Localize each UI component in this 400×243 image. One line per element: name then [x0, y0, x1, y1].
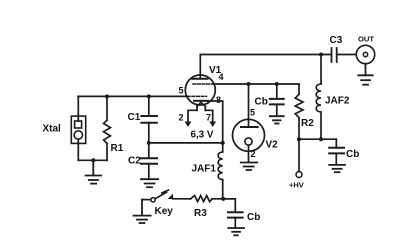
resistor R1 [104, 96, 124, 160]
ground at key [134, 200, 151, 223]
svg-text:8: 8 [216, 95, 221, 105]
ground under Cb screen [270, 116, 284, 123]
resistor R3 [191, 196, 224, 220]
wire V2 grid drop [248, 84, 250, 127]
node R2 bottom [297, 137, 301, 141]
op V1 triode envelope [185, 75, 215, 105]
wire crystal bottom [77, 139, 79, 160]
wire HV rail [299, 138, 336, 140]
svg-text:6,3 V: 6,3 V [191, 129, 214, 140]
svg-text:C1: C1 [128, 112, 141, 123]
wire C3 to OUT [337, 54, 357, 56]
node C1 C2 junction [147, 141, 151, 145]
resistor R2 [295, 84, 314, 139]
svg-text:JAF2: JAF2 [325, 96, 350, 107]
ground under C2 [141, 179, 158, 187]
svg-text:JAF1: JAF1 [192, 163, 217, 174]
switch Key [142, 190, 173, 217]
V1 heater filament [185, 102, 217, 127]
connector OUT [356, 34, 374, 63]
svg-text:+HV: +HV [289, 181, 304, 190]
wire top rail plate to C3 [200, 55, 331, 79]
ground under V2 [241, 163, 257, 171]
V1 cathode bar [194, 100, 208, 102]
capacitor C1 [128, 96, 157, 142]
svg-text:7: 7 [206, 112, 211, 122]
V1 plate bar [192, 78, 207, 80]
ground under Cb output [329, 165, 345, 172]
svg-text:2: 2 [251, 149, 256, 159]
capacitor Cb cathode [223, 199, 260, 228]
node cathode JAF1 junction [221, 141, 225, 145]
svg-text:R3: R3 [194, 208, 207, 219]
capacitor Cb output [329, 139, 359, 165]
ground under crystal [86, 160, 102, 183]
capacitor C2 [128, 143, 157, 179]
svg-text:V2: V2 [266, 139, 279, 150]
svg-text:5: 5 [250, 107, 255, 117]
node C1 top [147, 94, 151, 98]
node JAF2 tap on top rail [319, 53, 323, 57]
node R1 top [105, 94, 109, 98]
V1 screen grid (pin 4) dashed [193, 83, 214, 85]
node R3 JAF1 Cb junction [221, 197, 225, 201]
node ground tap [91, 158, 95, 162]
wire key to R3 [173, 198, 191, 200]
svg-text:C3: C3 [330, 35, 343, 46]
wire pin 4 to R2 top [214, 83, 300, 85]
inductor JAF1 [192, 143, 223, 199]
svg-text:R1: R1 [111, 143, 124, 154]
node V2 grid tap [247, 82, 251, 86]
svg-text:R2: R2 [301, 118, 314, 129]
svg-text:Xtal: Xtal [43, 124, 62, 135]
wire cathode line 6,3V [149, 142, 223, 144]
svg-text:OUT: OUT [358, 34, 374, 43]
capacitor Cb screen [255, 84, 284, 116]
capacitor C3 [330, 35, 343, 62]
node JAF2 bottom [319, 137, 323, 141]
svg-text:Cb: Cb [247, 212, 260, 223]
svg-text:Cb: Cb [255, 97, 268, 108]
svg-text:C2: C2 [128, 155, 141, 166]
crystal Xtal holder [71, 116, 85, 143]
node Cb tap [275, 82, 279, 86]
wire V1 cathode to JAF1 [208, 101, 223, 143]
svg-text:2: 2 [179, 112, 184, 122]
terminal +HV [289, 139, 304, 189]
tube V2 [233, 119, 279, 161]
svg-text:Cb: Cb [346, 149, 359, 160]
V1 control grid dashed (pin 5) [188, 95, 207, 97]
ground under Cb cathode [228, 228, 244, 235]
wire grid to crystal rail [78, 95, 188, 97]
wire crystal drop [77, 96, 79, 121]
svg-text:Key: Key [155, 206, 174, 217]
svg-text:4: 4 [219, 72, 224, 82]
svg-text:5: 5 [179, 85, 184, 95]
ground under OUT [358, 64, 372, 85]
inductor JAF2 [316, 55, 350, 140]
wire bottom left rail [78, 159, 107, 161]
